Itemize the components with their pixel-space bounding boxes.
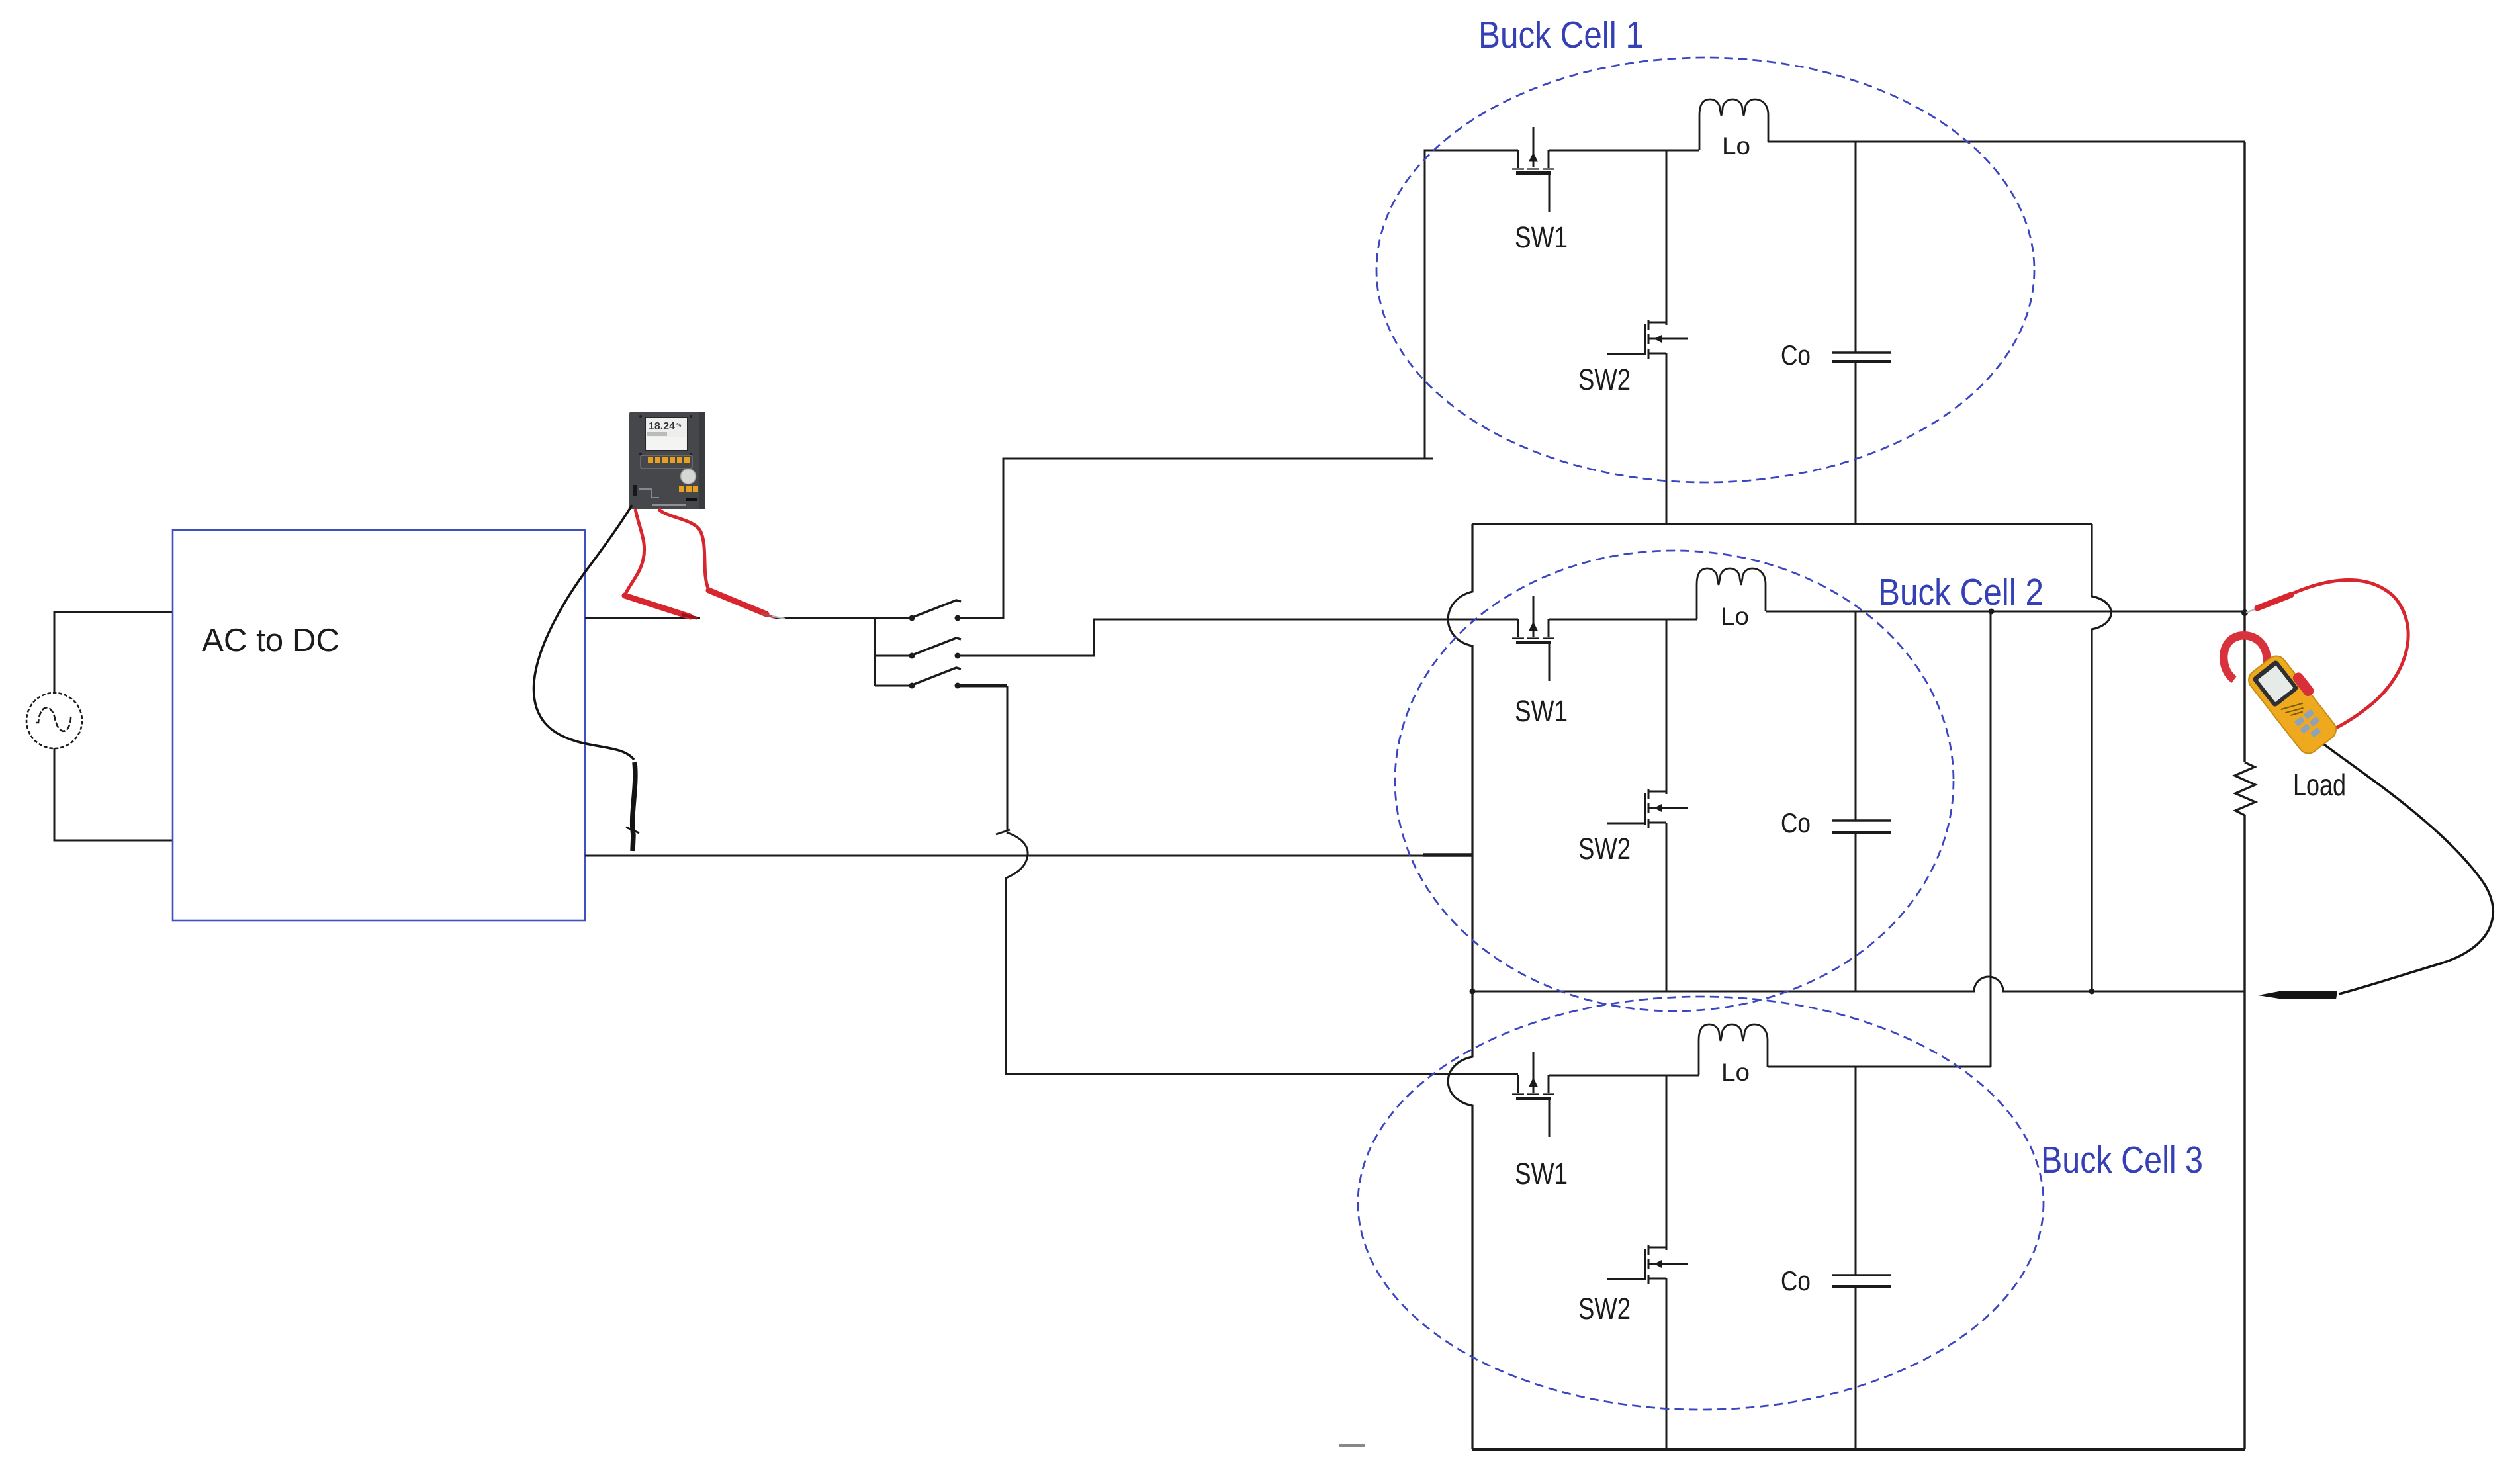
red test lead 2 [658,509,709,590]
wire cell1 switch node riser [1666,150,1668,325]
wire cell3 switch node riser [1666,1075,1668,1250]
multimeter small buttons [679,486,698,492]
clamp meter black cable to load return [2321,742,2493,994]
stray mark [1339,1444,1365,1447]
wire cell2 output to right rail [1766,611,2245,613]
svg-text:Lo: Lo [1721,603,1749,630]
multimeter ports [633,485,637,496]
svg-text:Lo: Lo [1721,1059,1750,1086]
multimeter LCD [645,418,688,451]
clamp meter body [2245,649,2344,757]
svg-text:SW2: SW2 [1578,832,1631,866]
transistor SW2 (cell2) [1607,789,1688,828]
svg-text:Lo: Lo [1722,132,1750,159]
resistor Load [2235,762,2255,815]
wire cell2 switch node riser [1666,619,1668,794]
node cell2 output / cell3 riser junction [1989,609,1995,615]
wire cell3 bottom rail [1472,1448,2245,1451]
wire S3 output thick stub [958,684,1007,688]
multimeter button row [641,455,692,469]
wire cell3 output [1768,1066,1991,1068]
inductor Lo (cell3) [1699,1024,1768,1075]
wire cell3 output riser up to cell2 output [1990,611,1992,1067]
switch S2 pole (middle) [909,638,962,659]
wire cell2 SW2 source to bottom rail [1666,823,1668,991]
multimeter knob [681,469,696,484]
capacitor Co (cell2) [1832,611,1891,991]
transistor SW1 (cell3) [1512,1052,1554,1137]
ellipse Buck Cell 2 boundary [1395,551,1954,1011]
wire cell1 rail SW1 to node [1549,150,1666,152]
wire cell1 output to right rail [1768,141,2245,143]
wire AC source top lead [54,612,173,693]
wire cell1 SW2 source to bottom rail [1666,353,1668,524]
wire S2 output riser to cell2 [958,619,1518,656]
svg-text:Buck Cell 1: Buck Cell 1 [1478,14,1644,56]
svg-text:SW1: SW1 [1515,1157,1568,1190]
node mid vertical junction [2089,989,2095,995]
capacitor Co (cell1) [1832,142,1891,524]
AC source V1 [26,693,82,748]
switch feeder vertical [874,618,876,686]
red test lead 1 [625,509,645,594]
wire feeder to pole3 [875,685,911,687]
svg-text:Co: Co [1781,807,1811,838]
wire DC bus bottom with hop over switch3 riser [585,855,1472,857]
AC to DC converter block [173,530,585,920]
inductor Lo (cell2) [1697,568,1766,619]
node DC bus / left bus tie [1423,853,1473,857]
wire cell1 rail node to inductor [1666,150,1699,152]
svg-text:Co: Co [1781,339,1811,371]
svg-text:Load: Load [2293,768,2346,802]
svg-text:Buck Cell 2: Buck Cell 2 [1878,571,2044,613]
wire feeder to pole2 [875,655,911,657]
switch S1 pole (top) [909,600,962,621]
wire DC bus top (box to probe gap) [585,617,700,619]
switch S3 pole (bottom) [909,668,962,689]
wire S1 output riser to cell1 [958,459,1433,618]
wire cell2 bottom rail / load return [1472,977,2245,991]
wire DC bus top (probe gap to switch) [775,617,911,619]
wire cell1 bottom rail [1472,523,2092,525]
svg-text:SW2: SW2 [1578,363,1631,396]
wire left bus vertical with hops [1448,524,1472,1449]
svg-text:SW2: SW2 [1578,1292,1631,1325]
black test lead (multimeter) [534,505,634,760]
wire AC source bottom lead [54,748,173,840]
node load top junction [2241,609,2248,616]
wire S3 output riser to cell3 [1007,686,1009,831]
svg-text:SW1: SW1 [1515,694,1568,728]
wire mid vertical (cell1 bottom to load return) with hop [2092,524,2111,991]
transistor SW2 (cell3) [1607,1245,1688,1284]
transistor SW2 (cell1) [1607,320,1688,359]
wire cell1 input riser [1425,150,1518,459]
wire cell3 rail SW1 to node [1549,1075,1666,1077]
svg-text:AC to DC: AC to DC [202,623,339,658]
inductor Lo (cell1) [1699,99,1768,150]
ellipse Buck Cell 1 boundary [1376,58,2034,482]
transistor SW1 (cell1) [1512,127,1554,212]
wire cell2 rail SW1 to node [1549,619,1666,621]
clamp meter red cable to junction [2286,580,2408,729]
transistor SW1 (cell2) [1512,596,1554,681]
wire cell2 rail node to inductor [1666,619,1697,621]
svg-text:SW1: SW1 [1515,220,1568,254]
capacitor Co (cell3) [1832,1067,1891,1449]
svg-text:Buck Cell 3: Buck Cell 3 [2041,1139,2203,1181]
multimeter body [629,412,705,509]
wire cell3 SW2 source to bottom rail [1666,1278,1668,1449]
ellipse Buck Cell 3 boundary [1358,997,2044,1410]
clamp meter jaw [2224,635,2267,680]
node left bus / load-return junction [1470,989,1476,995]
wire cell3 rail node to inductor [1666,1075,1699,1077]
svg-text:Co: Co [1781,1265,1811,1296]
wire right rail below resistor [2243,815,2245,1449]
wire far right rail [2243,142,2245,762]
black probe (load return) [2258,991,2337,999]
